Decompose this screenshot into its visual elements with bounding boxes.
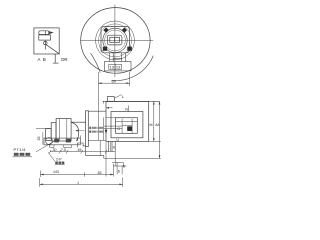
svg-text:J: J <box>77 181 79 185</box>
svg-text:DR: DR <box>61 57 67 62</box>
top-left small dim arrow <box>106 107 113 109</box>
right dim line AA <box>159 102 161 159</box>
front view scroll outline <box>81 8 150 74</box>
right extension lines <box>149 140 161 142</box>
bottom dim line 1 <box>41 174 114 176</box>
scroll discharge arc <box>112 56 154 81</box>
bracket arm top <box>71 121 86 123</box>
PT leader <box>36 142 54 152</box>
base channel <box>44 138 80 145</box>
hub boss <box>107 35 122 45</box>
inlet duct inner top <box>106 117 119 119</box>
drain direction arrow <box>105 130 108 134</box>
PT label underline <box>13 156 33 158</box>
DR leader line <box>54 54 56 63</box>
hub circle <box>105 30 126 51</box>
shaft center block <box>127 126 132 131</box>
svg-text:45: 45 <box>98 171 102 175</box>
inlet flange square <box>101 26 129 52</box>
inlet cone <box>71 122 79 141</box>
inlet duct outer top <box>88 110 106 112</box>
bolt circle <box>99 24 132 57</box>
impeller verticals <box>121 119 123 134</box>
motor main body <box>56 119 71 141</box>
svg-text:60: 60 <box>112 79 117 84</box>
svg-text:13: 13 <box>116 65 121 70</box>
bottom dim line 2 <box>40 183 123 185</box>
svg-text:30: 30 <box>53 148 57 152</box>
orientation inset box <box>34 28 59 54</box>
inlet plate line <box>103 118 105 141</box>
shaft lines <box>104 125 122 127</box>
scroll side rect2 <box>111 112 143 138</box>
drain elbow <box>46 138 53 145</box>
svg-text:N: N <box>125 107 128 111</box>
inset terminal pill <box>39 31 54 35</box>
scroll side outer square <box>106 102 149 142</box>
horizontal centerline <box>80 39 153 41</box>
svg-text:A: A <box>38 57 41 62</box>
inset diagonal leader <box>46 45 59 54</box>
scroll side rect3 <box>116 118 138 134</box>
lower view top line <box>103 100 160 102</box>
svg-text:45: 45 <box>78 148 82 152</box>
13 13 cells <box>109 64 122 69</box>
scroll support leg <box>99 141 101 156</box>
scroll base outline <box>86 146 104 158</box>
inlet duct bottom <box>88 140 106 142</box>
side view 35 dim line <box>42 132 44 144</box>
svg-text:6: 6 <box>118 170 120 174</box>
base bracket under square <box>109 141 116 151</box>
svg-text:M: M <box>150 123 153 127</box>
svg-text:G: G <box>117 127 120 131</box>
rotation leader arrow <box>76 130 85 132</box>
base bottom line <box>104 157 161 159</box>
text labels <box>38 57 68 62</box>
right dim line M <box>153 102 155 142</box>
2-hole leader <box>48 152 55 161</box>
svg-text:B: B <box>43 57 46 62</box>
base bolts <box>54 139 59 143</box>
foot pads <box>50 145 54 148</box>
L leader <box>115 95 122 98</box>
N dim tick <box>127 106 129 112</box>
motor rear cap <box>46 129 52 141</box>
A / B rotation note lines <box>89 127 104 133</box>
mounting flange plate <box>86 111 89 147</box>
step line <box>112 162 123 164</box>
bellmouth circle <box>96 21 135 60</box>
inset motor body rect <box>39 35 51 40</box>
inset drain circle <box>44 41 47 44</box>
front base box <box>104 62 131 71</box>
vertical centerline <box>114 5 116 78</box>
svg-text:2-P: 2-P <box>56 158 62 162</box>
hub terminal block <box>110 37 120 42</box>
svg-text:13: 13 <box>110 65 115 70</box>
inlet circle <box>103 28 127 52</box>
flange bolt marks <box>103 27 132 50</box>
CJK label smudges <box>14 153 65 164</box>
60 dim extension lines <box>97 72 99 141</box>
impeller mid line <box>116 120 138 122</box>
svg-text:U: U <box>116 138 119 142</box>
DR leader foot <box>53 62 59 64</box>
flange foot <box>77 143 85 147</box>
discharge rect <box>107 97 114 102</box>
U dim <box>110 142 112 151</box>
60 dim line <box>98 82 129 84</box>
inset stem wire <box>44 40 46 49</box>
svg-text:PT1/4: PT1/4 <box>14 147 27 152</box>
bottom extension lines <box>40 142 123 187</box>
svg-text:35: 35 <box>37 137 41 141</box>
small 6 dim <box>116 163 118 175</box>
mount dim line 30 7.5 45 <box>50 151 115 153</box>
front legs <box>109 53 125 62</box>
svg-text:143: 143 <box>53 170 59 174</box>
mount label underline <box>55 164 65 166</box>
side view left dim extension <box>36 128 51 130</box>
svg-text:7.5: 7.5 <box>61 148 66 152</box>
motor rear bracket <box>51 123 56 141</box>
svg-text:6: 6 <box>123 165 125 169</box>
scroll tongue curve <box>91 53 101 72</box>
